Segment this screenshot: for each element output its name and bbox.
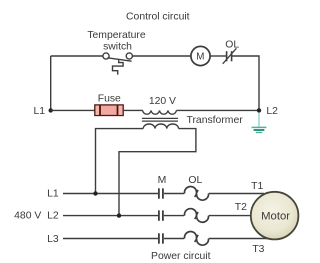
label: L3 (power) bbox=[47, 234, 59, 245]
label: Temperature switch bbox=[87, 30, 146, 53]
contact M on L1 bbox=[159, 188, 163, 198]
label: T2 bbox=[235, 202, 247, 213]
label: L2 (power) bbox=[47, 211, 59, 222]
label: Control circuit bbox=[126, 12, 190, 23]
svg-text:OL: OL bbox=[225, 39, 239, 50]
svg-text:L2: L2 bbox=[47, 211, 59, 222]
contact M on L2 bbox=[159, 210, 163, 220]
OL heater on L3 bbox=[185, 232, 209, 246]
svg-text:T1: T1 bbox=[251, 181, 263, 192]
label: Transformer bbox=[187, 115, 244, 126]
svg-text:Temperature: Temperature bbox=[87, 30, 146, 41]
label: 480 V bbox=[14, 211, 41, 222]
wire: transformer primary to L2 node bbox=[176, 109, 259, 111]
svg-text:M: M bbox=[196, 52, 204, 63]
wire: secondary right lead down to power L2 bbox=[119, 129, 196, 216]
OL heater on L1 bbox=[185, 187, 209, 201]
svg-text:Control circuit: Control circuit bbox=[126, 12, 190, 23]
svg-text:T2: T2 bbox=[235, 202, 247, 213]
label: OL (heaters) bbox=[188, 175, 202, 186]
transformer T1: secondary winding bbox=[143, 124, 178, 129]
OL normally-closed contact bbox=[223, 48, 237, 64]
coil M (motor starter coil) bbox=[191, 46, 210, 65]
svg-text:120 V: 120 V bbox=[149, 96, 176, 107]
svg-text:M: M bbox=[158, 175, 167, 186]
svg-text:480 V: 480 V bbox=[14, 211, 41, 222]
svg-text:switch: switch bbox=[103, 41, 132, 52]
wire: fuse to transformer primary bbox=[123, 109, 142, 111]
label: T1 bbox=[251, 181, 263, 192]
node: transformer lead on power L2 bbox=[117, 213, 121, 217]
wire: coil M to OL contact bbox=[210, 55, 226, 57]
transformer T1: 120V winding bbox=[143, 110, 177, 114]
svg-text:OL: OL bbox=[188, 175, 202, 186]
svg-text:T3: T3 bbox=[252, 244, 264, 255]
node: L1 control junction bbox=[49, 108, 53, 112]
label: M (contacts) bbox=[158, 175, 167, 186]
wire: L1 node to fuse bbox=[51, 109, 95, 111]
wire: power line L3 bbox=[63, 238, 268, 240]
wire: top-left horizontal to temperature switch bbox=[51, 55, 103, 57]
ground: grounded secondary (teal earth symbol) bbox=[252, 113, 267, 133]
svg-text:Transformer: Transformer bbox=[187, 115, 244, 126]
motor (three-phase motor) bbox=[251, 192, 299, 240]
contact M on L3 bbox=[159, 233, 163, 243]
svg-text:L2: L2 bbox=[266, 106, 278, 117]
OL heater on L2 bbox=[185, 209, 209, 223]
label: Fuse bbox=[98, 94, 121, 105]
label: L1 (power) bbox=[47, 189, 59, 200]
wire: left vertical of control loop bbox=[50, 56, 52, 110]
wire: switch to coil M bbox=[133, 55, 191, 57]
label: Power circuit bbox=[151, 251, 211, 262]
label: L1 (control bus) bbox=[33, 106, 45, 117]
wire: secondary left lead down to power L1 bbox=[96, 129, 144, 194]
label: OL (control) bbox=[225, 39, 239, 50]
transformer T1: core bbox=[142, 118, 178, 121]
svg-text:Power circuit: Power circuit bbox=[151, 251, 211, 262]
svg-text:L1: L1 bbox=[47, 189, 59, 200]
svg-text:L1: L1 bbox=[33, 106, 45, 117]
label: T3 bbox=[252, 244, 264, 255]
fuse F1 bbox=[95, 105, 123, 116]
label: L2 (control bus) bbox=[266, 106, 278, 117]
wire: OL contact to right corner, down to L2 node bbox=[232, 56, 259, 109]
svg-text:L3: L3 bbox=[47, 234, 59, 245]
svg-text:Motor: Motor bbox=[261, 211, 290, 223]
svg-text:Fuse: Fuse bbox=[98, 94, 121, 105]
wire: power line L2 bbox=[63, 215, 252, 217]
node: L2 control junction bbox=[257, 108, 261, 112]
node: transformer lead on power L1 bbox=[93, 191, 97, 195]
temperature switch S1 bbox=[103, 53, 133, 75]
label: 120 V bbox=[149, 96, 176, 107]
wire: power line L1 bbox=[63, 193, 264, 195]
